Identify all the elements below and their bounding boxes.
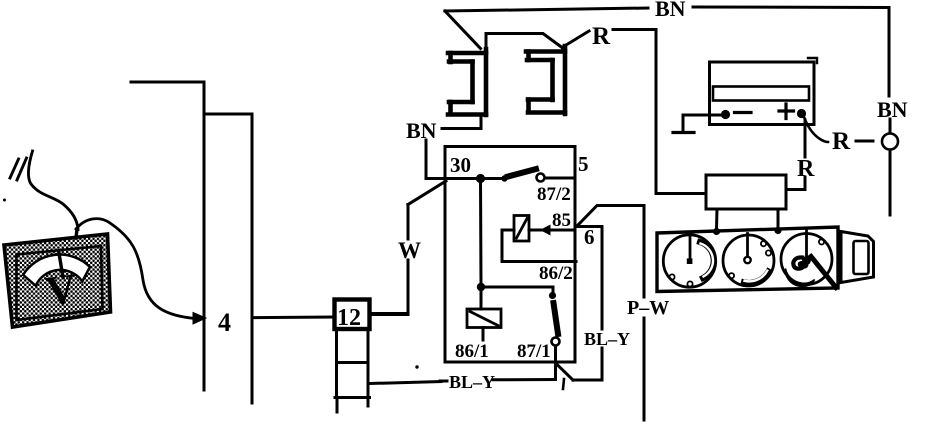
wire hook from plus terminal to R (804, 117, 828, 142)
gauge 1 (fuel) (663, 235, 715, 287)
svg-text:BN: BN (655, 0, 686, 21)
node junction lower (477, 283, 485, 291)
curved arrow from voltmeter to bus 4 (76, 219, 196, 319)
connector half (right) (526, 46, 565, 114)
wire diagonal BN down to left connector (445, 11, 481, 49)
wire ballast to cluster right (777, 209, 780, 228)
wire P_W vertical (643, 206, 646, 298)
wire 12 to BL-Y (370, 382, 441, 384)
lead wire from break marks to voltmeter (28, 151, 78, 230)
svg-text:12: 12 (337, 305, 361, 331)
gauge 2 (temp) (723, 235, 774, 286)
svg-text:30: 30 (450, 153, 471, 177)
wire dash between R and circle (856, 140, 873, 143)
instrument cluster box (657, 227, 838, 292)
wire BL-Y dash left (440, 380, 447, 383)
svg-text:R: R (797, 156, 815, 182)
connector half (left) (448, 49, 486, 115)
battery minus terminal (721, 110, 730, 119)
wire 87/1 down to box edge (554, 346, 557, 362)
switch blade 87/1 (554, 303, 559, 334)
svg-text:R: R (592, 23, 611, 50)
gauge 3 (clock) (781, 234, 832, 285)
battery plus terminal (797, 109, 806, 118)
wire BN right vertical down to connector circle (888, 8, 891, 97)
wire R diagonal from right connector (562, 31, 589, 48)
svg-text:85: 85 (552, 210, 571, 231)
voltmeter scale arc (23, 255, 90, 286)
wire BN label down to relay terminal 30 (426, 140, 446, 179)
svg-text:BN: BN (406, 118, 437, 143)
contact circle 87/1 (552, 338, 560, 346)
svg-text:87/1: 87/1 (517, 341, 551, 362)
svg-text:6: 6 (584, 225, 595, 249)
connector circle (single-pin) (882, 134, 898, 150)
clock hands (811, 257, 836, 288)
svg-text:87/2: 87/2 (537, 184, 571, 205)
wire bridge between connector blades (486, 34, 562, 52)
wire junction to switch 87/1 (481, 287, 553, 292)
wire 87/1 down to BL-Y horizontal (554, 362, 556, 380)
wire 87/2 to terminal 5 (545, 177, 575, 180)
node junction 30 (476, 174, 485, 183)
svg-text:86/2: 86/2 (539, 263, 573, 284)
contact circle 87/2 (537, 174, 545, 182)
svg-text:BL–Y: BL–Y (449, 372, 495, 392)
tick mark below 87/1 (563, 379, 564, 389)
battery (710, 62, 815, 125)
wire terminal 6 to BL-Y vertical (577, 227, 602, 330)
wire ballast to cluster left (715, 209, 719, 229)
wire below connector circle (889, 150, 892, 215)
svg-text:V: V (43, 266, 79, 315)
wire W diagonal from relay left edge (408, 181, 446, 205)
svg-text:BL–Y: BL–Y (584, 329, 630, 349)
wire coil 85 to terminal (529, 229, 575, 232)
voltmeter inner panel (17, 246, 103, 320)
svg-text:4: 4 (218, 308, 231, 337)
node small contact (501, 175, 507, 181)
bus line 2 with top lead (204, 114, 252, 403)
voltmeter terminal stub (76, 229, 77, 238)
svg-text:W: W (398, 238, 421, 263)
voltmeter body (4, 234, 111, 327)
relay coil 85 (514, 216, 529, 242)
connector 12 cell 3 (335, 363, 370, 398)
ballast resistor box (706, 175, 786, 209)
wire top BN from connector area to right corner (445, 8, 648, 11)
wire junction down to coil 86/1 (480, 287, 483, 309)
connector 12 box (335, 300, 370, 330)
relay coil 86/1 (467, 309, 501, 328)
cluster side knob (841, 232, 874, 283)
bus line 1 with top lead (131, 82, 204, 390)
wire bus 2 to connector 12 (252, 316, 334, 320)
wire BN label to left connector bottom (442, 115, 481, 129)
voltmeter needle (59, 252, 63, 278)
wire diagonal 87/1 to BL-Y (556, 364, 573, 381)
connector 12 tail (337, 398, 368, 413)
svg-text:P–W: P–W (627, 297, 669, 319)
wire coil 85 left loop to 86/2 (502, 230, 576, 262)
wire terminal 30 to switch inside relay (446, 177, 478, 180)
ground (683, 115, 721, 133)
connector 12 cell 2 (337, 329, 369, 363)
wire BL-Y horizontal right segment (493, 378, 554, 381)
stray speck (415, 365, 418, 368)
svg-text:86/1: 86/1 (455, 341, 489, 362)
node switch 87/1 top (549, 292, 556, 299)
wire R from plus terminal down to ballast (804, 120, 807, 157)
diode arrow at coil 85 (541, 225, 550, 234)
switch blade 87/2 (508, 169, 536, 177)
wire R to ballast resistor (613, 30, 706, 194)
svg-text:5: 5 (578, 152, 589, 176)
svg-text:R: R (832, 128, 851, 155)
wire junction 30 down (479, 179, 483, 287)
break marks (10, 159, 19, 178)
svg-text:BN: BN (877, 97, 908, 122)
wire terminal 85 diagonal to P_W line (577, 206, 644, 227)
relay box (445, 147, 575, 363)
wire 12 to W (370, 312, 408, 315)
stray speck (3, 199, 6, 202)
